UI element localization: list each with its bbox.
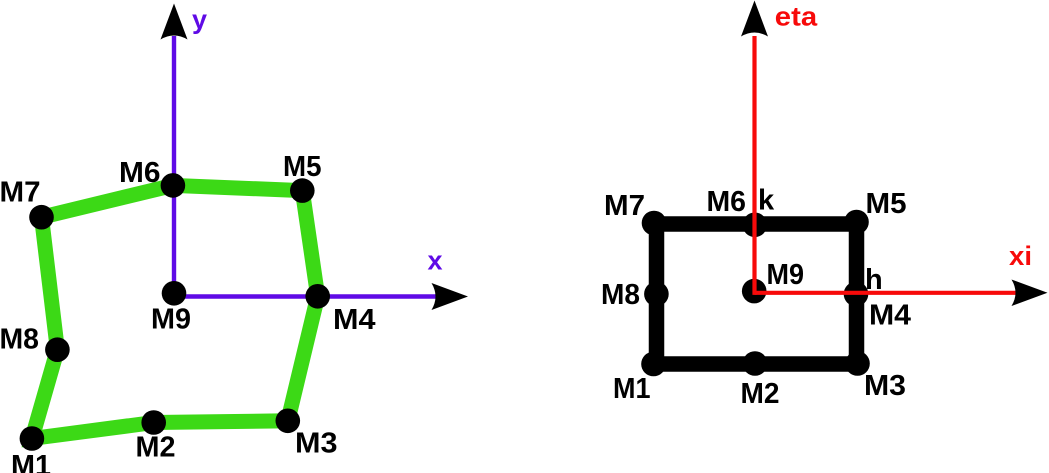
node M1 (left): [20, 426, 45, 451]
svg-text:k: k: [758, 185, 775, 217]
node M9 (right, origin): [742, 279, 767, 304]
wire xi-axis (red horizontal): [755, 291, 1017, 295]
wire y-axis (purple vertical): [172, 36, 176, 294]
svg-text:xi: xi: [1009, 241, 1032, 271]
element edges (green quadrilateral, physical element): [32, 185, 318, 438]
svg-text:M7: M7: [0, 177, 41, 209]
svg-text:M5: M5: [283, 151, 322, 183]
wire x-axis (purple horizontal): [174, 294, 446, 298]
node M5 (left): [290, 178, 315, 203]
svg-text:h: h: [865, 264, 883, 296]
svg-text:M6: M6: [707, 186, 747, 218]
svg-text:y: y: [192, 5, 207, 35]
svg-text:M9: M9: [767, 259, 805, 291]
node M7 (right): [642, 211, 667, 236]
svg-text:M4: M4: [869, 300, 911, 332]
node M2 (left): [141, 410, 166, 435]
svg-text:M2: M2: [741, 378, 780, 410]
svg-text:M1: M1: [613, 373, 651, 405]
wire eta-axis (red vertical): [752, 36, 756, 295]
svg-text:M8: M8: [601, 279, 640, 311]
svg-text:M9: M9: [151, 304, 191, 336]
node M3 (right): [845, 351, 870, 376]
node M4 (right): [844, 282, 869, 307]
svg-text:M8: M8: [0, 324, 39, 356]
node M1 (right): [641, 352, 666, 377]
node M7 (left): [29, 205, 54, 230]
node M2 (right): [743, 351, 768, 376]
svg-text:eta: eta: [775, 2, 818, 32]
reference element (black rectangle, xi-eta space): [657, 224, 857, 364]
node M9 (left, origin): [162, 281, 187, 306]
node M3 (left): [276, 409, 301, 434]
node M6 (right): [743, 213, 768, 238]
svg-text:M6: M6: [119, 157, 161, 189]
svg-text:M2: M2: [136, 432, 176, 464]
arrowhead eta-axis: [741, 1, 768, 37]
svg-text:M4: M4: [333, 304, 376, 336]
arrowhead y-axis: [161, 4, 188, 40]
svg-text:M3: M3: [295, 428, 338, 460]
node M4 (left): [305, 284, 330, 309]
svg-text:M3: M3: [864, 370, 906, 402]
node M6 (left): [161, 173, 186, 198]
node M8 (left): [45, 337, 70, 362]
arrowhead x-axis: [432, 283, 469, 310]
svg-text:M5: M5: [866, 188, 907, 220]
svg-text:M1: M1: [11, 450, 51, 473]
svg-text:M7: M7: [604, 190, 645, 222]
node M5 (right): [844, 210, 869, 235]
node M8 (right): [644, 282, 669, 307]
svg-text:x: x: [428, 246, 443, 276]
arrowhead xi-axis: [1012, 280, 1048, 307]
